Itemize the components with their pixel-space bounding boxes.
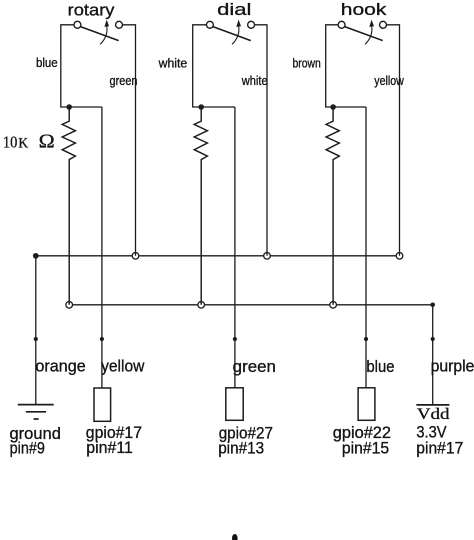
- label switch S1 "rotary": [68, 0, 115, 19]
- svg-text:Ω: Ω: [39, 130, 55, 152]
- junction dot on ground drop wire: [34, 337, 38, 341]
- svg-text:white: white: [158, 56, 188, 70]
- Vdd power rail bar: [416, 404, 449, 406]
- resistor R3 10k pull-up: [326, 107, 339, 305]
- terminal circle: S3 right wire joins ground bus: [396, 253, 403, 260]
- connector gpio#22 pin#15: [358, 388, 375, 421]
- svg-text:blue: blue: [36, 56, 58, 70]
- terminal circle: S2 right wire joins ground bus: [264, 253, 271, 260]
- svg-text:green: green: [110, 74, 138, 88]
- connector gpio#17 pin#11: [94, 388, 111, 421]
- wire S2 right terminal down to ground bus (right colour wire): [254, 25, 267, 256]
- label wire colour "orange" (bottom): [35, 358, 85, 376]
- terminal circle: S1 right wire joins ground bus: [132, 253, 139, 260]
- junction dot: ground bus left end to ground drop wire: [33, 253, 39, 259]
- svg-text:pin#9: pin#9: [10, 439, 45, 457]
- label wire colour "green" (bottom): [233, 358, 276, 376]
- svg-text:purple: purple: [431, 358, 474, 376]
- svg-text:hook: hook: [341, 0, 387, 19]
- label wire colour "blue" (bottom): [366, 358, 394, 376]
- wire S3 left terminal down to node (left colour wire): [326, 25, 366, 107]
- svg-text:yellow: yellow: [101, 358, 145, 376]
- junction dot on S1 gpio wire: [100, 337, 104, 341]
- label switch S2 "dial": [217, 0, 251, 19]
- label wire colour "purple" (bottom): [431, 358, 474, 376]
- switch S3 hook (SPST terminals + blade + actuation arrow): [338, 20, 386, 45]
- wire node S3 to gpio connector: [365, 107, 367, 388]
- label gpio#17: [86, 424, 142, 442]
- svg-text:blue: blue: [366, 358, 394, 376]
- wire S2 left terminal down to node (left colour wire): [193, 25, 235, 107]
- svg-text:pin#17: pin#17: [416, 439, 463, 457]
- wire node S1 to gpio connector: [101, 107, 103, 388]
- label resistor value 10K Ohm (serif): [3, 130, 55, 152]
- wire ground bus down to ground symbol (orange): [35, 256, 37, 405]
- svg-text:brown: brown: [293, 56, 321, 70]
- wire S1 right terminal down to ground bus (right colour wire): [122, 25, 135, 256]
- label wire colour "white": [158, 56, 188, 70]
- ground symbol (pin#9): [18, 405, 54, 419]
- junction dot on S3 gpio wire: [364, 337, 368, 341]
- wire upper ground bus: [36, 255, 396, 257]
- switch S2 dial (SPST terminals + blade + actuation arrow): [206, 20, 254, 45]
- label 3.3V: [416, 424, 446, 442]
- wire S1 left terminal down to node (left colour wire): [61, 25, 102, 107]
- junction dot: S3 left wire / resistor R3 / gpio wire: [330, 104, 336, 110]
- label gpio#27: [219, 425, 273, 443]
- terminal circle: R3 bottom joins Vdd bus: [330, 302, 337, 309]
- label pin#17: [416, 439, 463, 457]
- terminal circle: R1 bottom joins Vdd bus: [66, 302, 73, 309]
- page number fragment (clipped at bottom edge): [232, 534, 238, 540]
- label gpio#22: [333, 424, 391, 442]
- svg-text:green: green: [233, 358, 276, 376]
- wire node S2 to gpio connector: [234, 107, 236, 388]
- label wire colour "brown": [293, 56, 321, 70]
- junction dot: S2 left wire / resistor R2 / gpio wire: [198, 104, 204, 110]
- svg-text:10: 10: [3, 132, 18, 151]
- label pin#15: [342, 440, 389, 458]
- resistor R2 10k pull-up: [194, 107, 207, 305]
- junction dot: S1 left wire / resistor R1 / gpio wire: [66, 104, 72, 110]
- junction dot on S2 gpio wire: [233, 337, 237, 341]
- resistor R1 10k pull-up: [62, 107, 75, 305]
- label wire colour "blue": [36, 56, 58, 70]
- label wire colour "yellow": [374, 74, 404, 88]
- svg-text:Vdd: Vdd: [417, 406, 450, 423]
- label switch S3 "hook": [341, 0, 387, 19]
- label wire colour "green": [110, 74, 138, 88]
- label ground: [10, 425, 61, 443]
- svg-text:pin#15: pin#15: [342, 440, 389, 458]
- wire S3 right terminal down to ground bus (right colour wire): [386, 25, 399, 256]
- junction dot: Vdd bus right end to Vdd drop wire: [430, 303, 435, 308]
- svg-text:rotary: rotary: [68, 0, 115, 19]
- junction dot on Vdd drop wire: [431, 337, 435, 341]
- svg-text:dial: dial: [217, 0, 251, 19]
- svg-text:white: white: [241, 74, 268, 88]
- label wire colour "white": [241, 74, 268, 88]
- wire lower Vdd bus: [73, 304, 433, 306]
- svg-text:K: K: [18, 135, 28, 151]
- svg-text:yellow: yellow: [374, 74, 404, 88]
- wire Vdd bus down to Vdd rail (purple): [432, 305, 434, 405]
- label pin#13: [218, 440, 264, 458]
- connector gpio#27 pin#13: [226, 388, 243, 421]
- svg-text:pin#13: pin#13: [218, 440, 264, 458]
- svg-text:pin#11: pin#11: [86, 439, 133, 457]
- terminal circle: R2 bottom joins Vdd bus: [198, 302, 205, 309]
- label pin#9: [10, 439, 45, 457]
- label pin#11: [86, 439, 133, 457]
- switch S1 rotary (SPST terminals + blade + actuation arrow): [74, 20, 123, 45]
- label Vdd (serif): [417, 406, 450, 423]
- label wire colour "yellow" (bottom): [101, 358, 145, 376]
- svg-text:orange: orange: [35, 358, 85, 376]
